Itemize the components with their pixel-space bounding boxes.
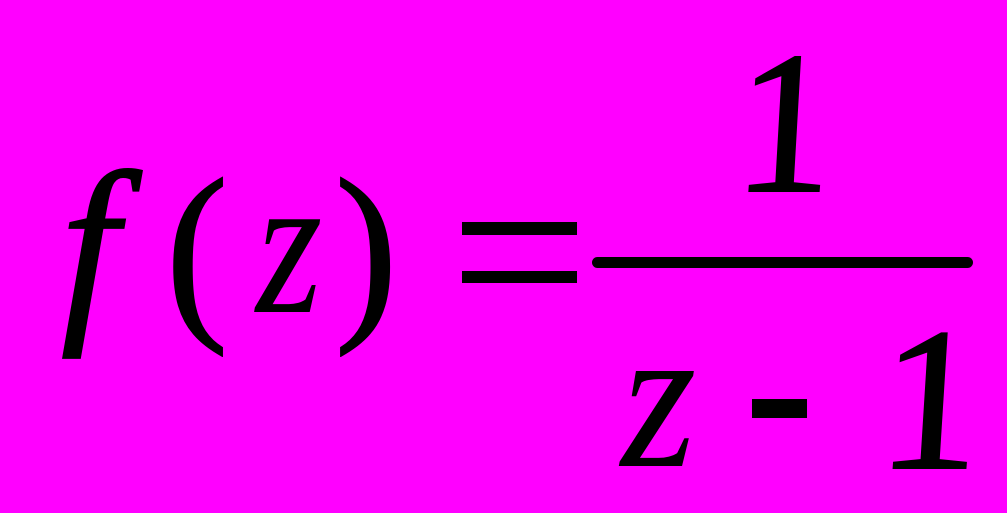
numerator digit 1 bbox=[723, 21, 845, 224]
denominator variable z bbox=[621, 293, 696, 500]
equals sign top bar bbox=[462, 222, 577, 235]
left parenthesis bbox=[166, 151, 228, 347]
fraction bar bbox=[592, 257, 973, 268]
equals sign bottom bar bbox=[462, 271, 577, 283]
function name f bbox=[61, 142, 118, 348]
denominator digit 1 bbox=[867, 298, 992, 502]
minus sign in denominator bbox=[752, 399, 807, 418]
variable z (argument) bbox=[256, 143, 322, 345]
right parenthesis bbox=[335, 151, 397, 347]
